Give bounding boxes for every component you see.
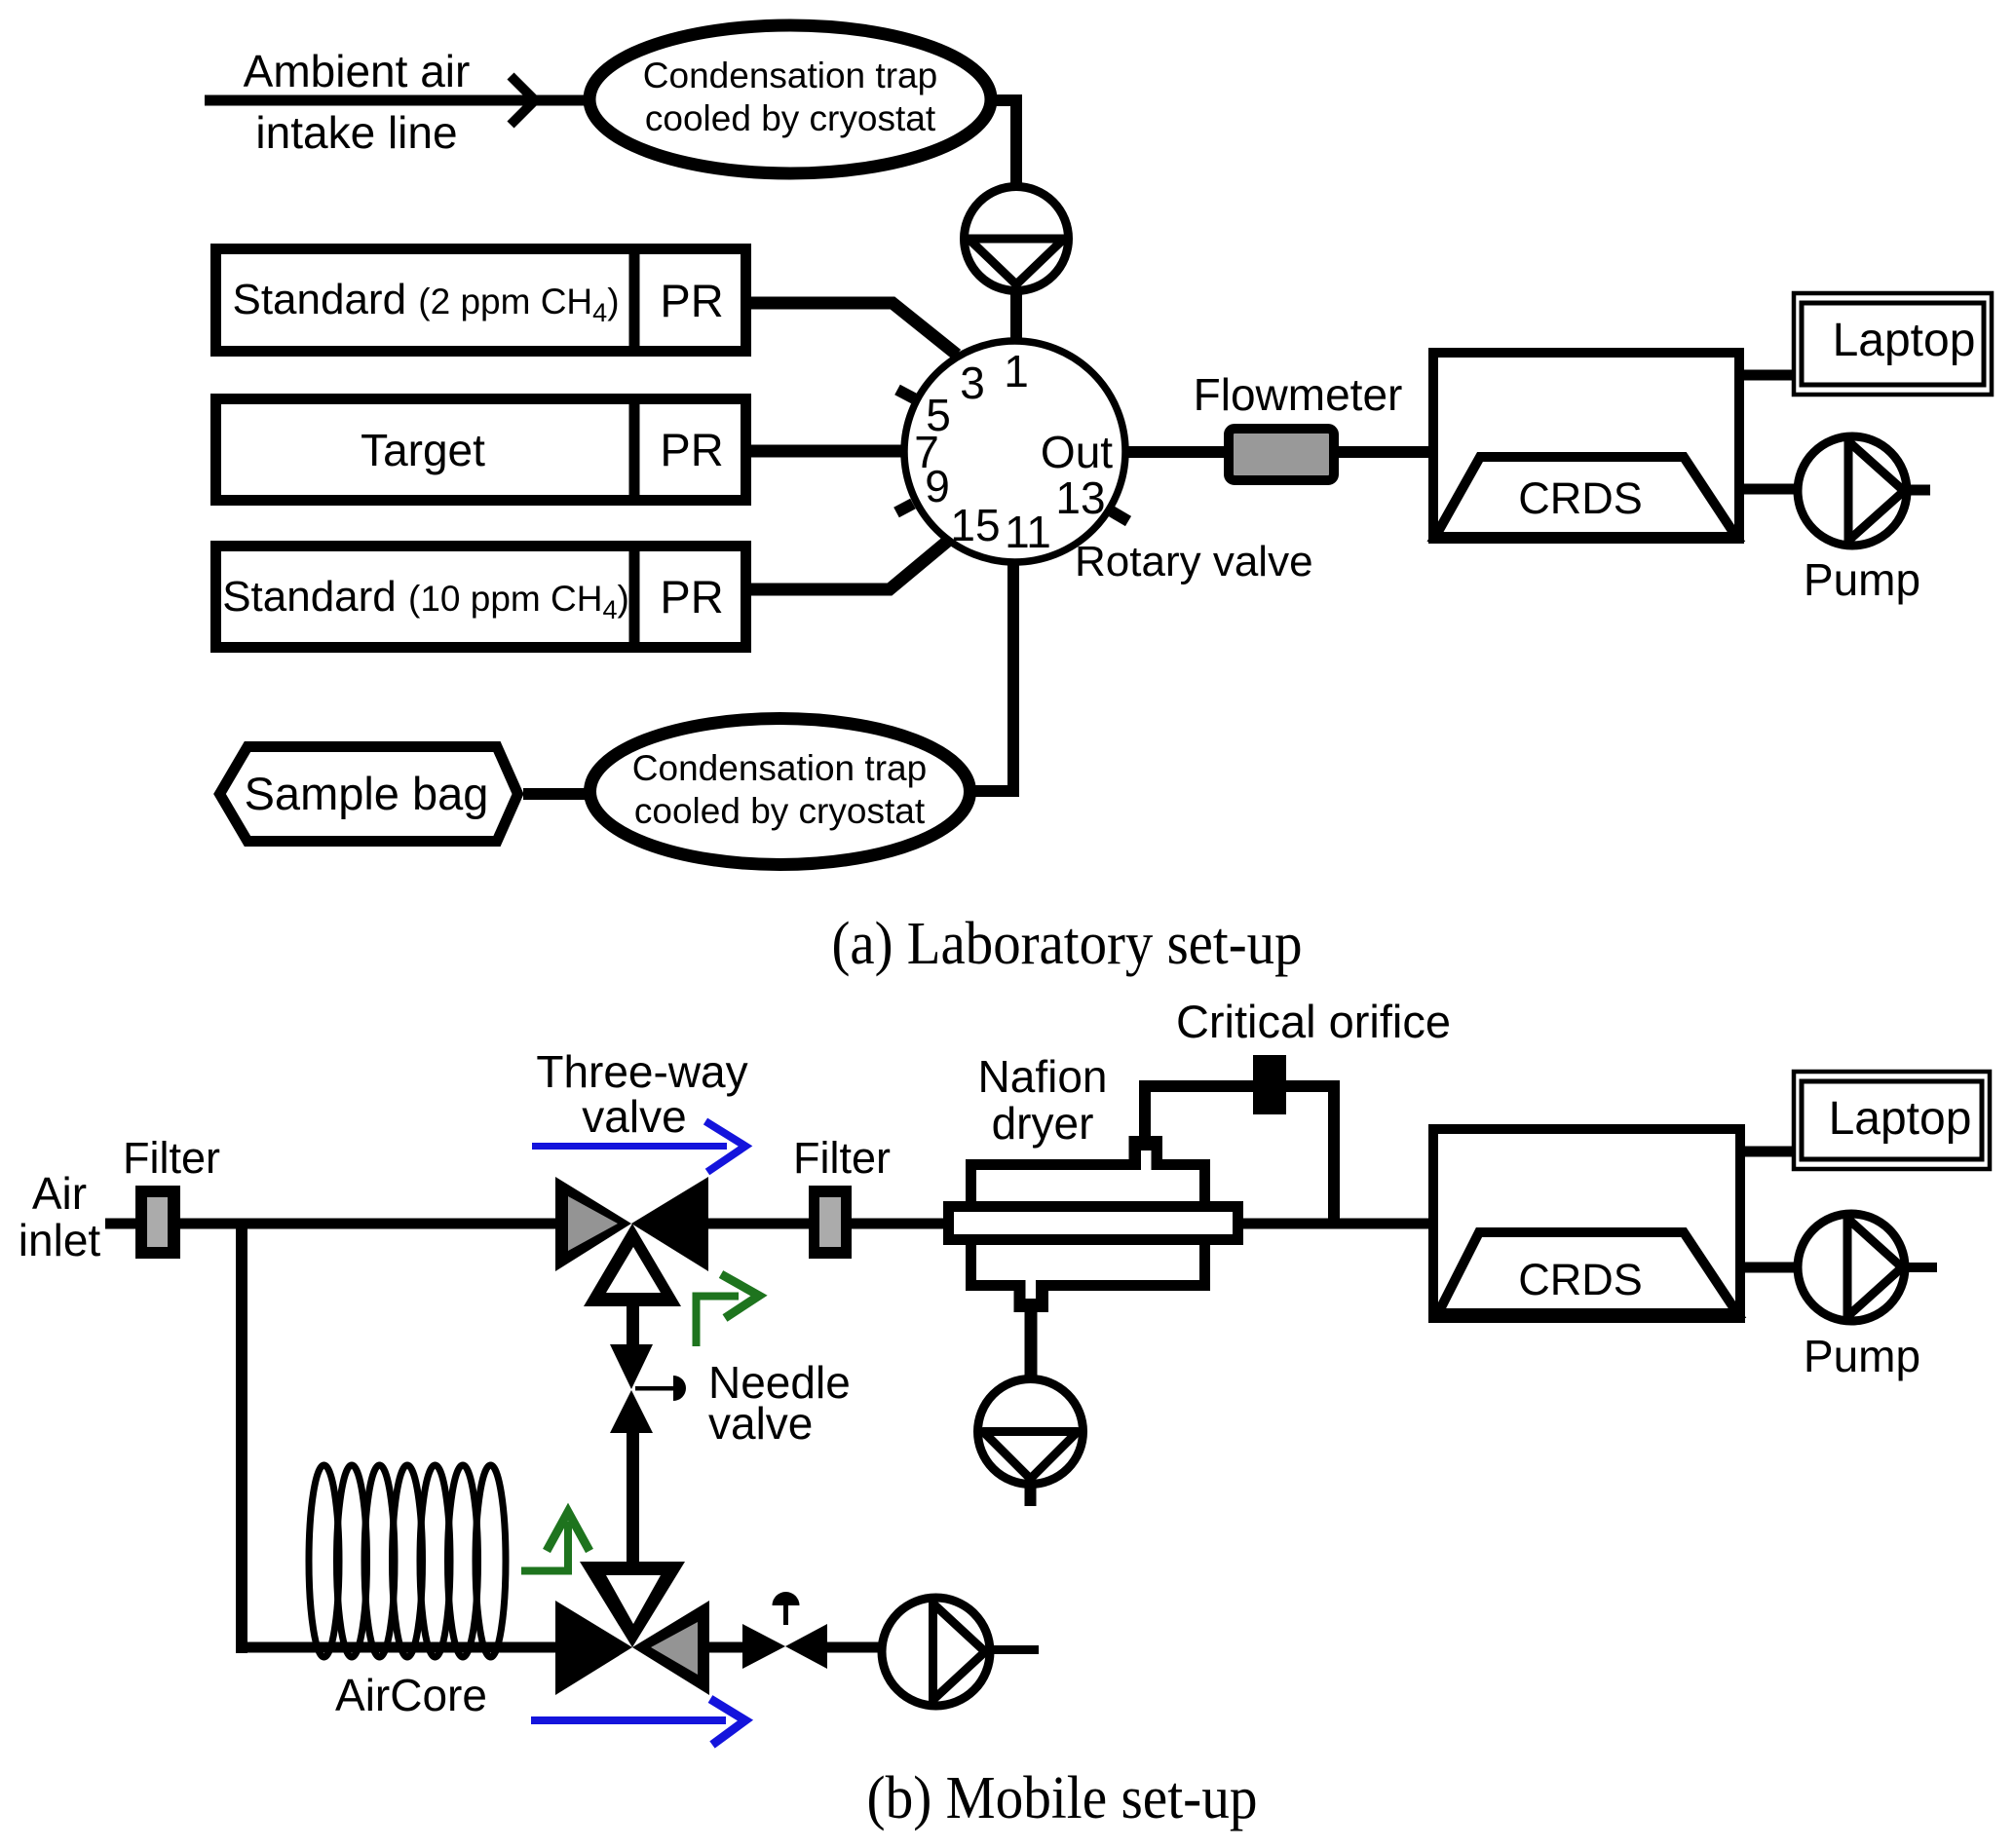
svg-text:Condensation trap: Condensation trap	[643, 56, 937, 95]
svg-text:valve: valve	[582, 1091, 686, 1142]
svg-text:valve: valve	[708, 1398, 813, 1449]
CRDS trapezoid (b)	[1438, 1232, 1737, 1313]
top port collar	[1129, 1136, 1163, 1170]
top port line up	[1139, 1080, 1151, 1138]
gray inset triangle	[651, 1622, 698, 1675]
main line dryer to CRDS	[1243, 1219, 1428, 1229]
right black triangle	[632, 1601, 709, 1695]
wire bottom valve to small valve	[709, 1642, 742, 1653]
right black triangle	[631, 1177, 708, 1271]
svg-text:1: 1	[1004, 346, 1029, 396]
svg-text:PR: PR	[660, 275, 723, 326]
pump (a)	[1798, 436, 1907, 546]
svg-text:(a) Laboratory set-up: (a) Laboratory set-up	[832, 911, 1303, 977]
Nafion dryer shell	[971, 1165, 1205, 1286]
svg-text:Out: Out	[1041, 427, 1113, 477]
svg-text:CRDS: CRDS	[1518, 473, 1643, 523]
bottom horizontal line to AirCore valve	[236, 1642, 557, 1653]
svg-text:PR: PR	[660, 571, 723, 622]
laptop (b) inner	[1802, 1081, 1982, 1159]
rotary valve circle	[904, 341, 1125, 562]
svg-text:cooled by cryostat: cooled by cryostat	[634, 791, 926, 831]
flowmeter	[1229, 429, 1334, 480]
svg-text:13: 13	[1055, 472, 1105, 523]
tick 328deg	[1112, 511, 1128, 521]
blue arrow (bottom)	[531, 1716, 726, 1724]
svg-text:11: 11	[1005, 507, 1051, 557]
svg-text:(b) Mobile set-up: (b) Mobile set-up	[867, 1765, 1258, 1831]
wire ambient air intake line	[205, 95, 585, 106]
pump (Nafion dryer)	[978, 1379, 1083, 1485]
svg-text:Nafion: Nafion	[978, 1051, 1108, 1102]
green arrow 2 (right angle, pointing up)	[521, 1522, 568, 1571]
critical orifice block	[1253, 1055, 1286, 1114]
svg-text:AirCore: AirCore	[335, 1670, 487, 1720]
svg-text:dryer: dryer	[992, 1098, 1094, 1149]
needle valve flag	[635, 1386, 673, 1391]
svg-text:Ambient air: Ambient air	[244, 46, 471, 96]
svg-text:Laptop: Laptop	[1829, 1093, 1972, 1145]
main line valve to filter2 to dryer	[708, 1219, 809, 1229]
svg-text:Laptop: Laptop	[1833, 315, 1976, 366]
laptop (a) outer	[1794, 293, 1992, 395]
gray inset triangle	[568, 1196, 618, 1251]
filter 1	[135, 1186, 180, 1259]
pump (b)	[1798, 1214, 1905, 1321]
pump P1 (vertical)	[965, 187, 1069, 291]
pump (AirCore branch)	[882, 1598, 990, 1706]
stem needle valve to bottom valve	[627, 1433, 639, 1562]
svg-text:Pump: Pump	[1804, 1331, 1920, 1381]
cylinder Target box	[216, 399, 746, 501]
wire PR3 to valve	[751, 541, 948, 589]
tick 152deg	[897, 390, 914, 398]
wire CRDS to laptop (b)	[1745, 1147, 1792, 1157]
white branch triangle below	[584, 1224, 681, 1306]
divider PR1	[629, 244, 640, 357]
divider PR2	[629, 394, 640, 506]
branch vertical line down to AirCore loop	[236, 1224, 247, 1653]
svg-text:15: 15	[950, 500, 1000, 550]
laptop (b) outer	[1794, 1072, 1990, 1169]
wire CRDS to pump (a)	[1744, 484, 1798, 495]
svg-text:Pump: Pump	[1804, 554, 1920, 605]
svg-text:Condensation trap: Condensation trap	[632, 748, 927, 788]
white branch triangle above	[580, 1562, 685, 1647]
pump right stub	[992, 1645, 1039, 1654]
wire valve Out to flowmeter	[1125, 446, 1225, 458]
svg-text:9: 9	[925, 461, 950, 511]
tick 207deg	[896, 504, 913, 512]
wire pump1 to rotary valve port 1	[1010, 289, 1022, 343]
cylinder Standard 2ppm box	[216, 249, 746, 352]
Nafion dryer tube	[949, 1207, 1238, 1240]
small hand valve	[742, 1624, 785, 1669]
svg-text:Filter: Filter	[793, 1133, 891, 1183]
divider PR3	[629, 541, 640, 653]
wire trap2 right to riser	[968, 785, 1013, 797]
stem valve to needle valve	[627, 1303, 639, 1346]
blue arrow (top)	[532, 1143, 727, 1150]
wire trap2 up to valve port 11	[1007, 563, 1019, 797]
critical orifice overline	[1139, 1080, 1340, 1092]
wire PR2 to valve	[751, 445, 906, 458]
pump bottom stub	[1025, 1485, 1037, 1506]
main line b (left of valve)	[105, 1219, 556, 1229]
CRDS trapezoid (a)	[1435, 457, 1736, 537]
left black triangle	[555, 1601, 632, 1695]
wire flowmeter to CRDS	[1338, 446, 1428, 458]
left black triangle	[555, 1177, 631, 1271]
svg-text:Target: Target	[361, 425, 485, 475]
arrowhead on intake line	[511, 76, 535, 125]
svg-text:Standard (2 ppm CH4): Standard (2 ppm CH4)	[232, 276, 619, 327]
bottom port collar	[1014, 1291, 1049, 1312]
condensation trap 2 (ellipse)	[590, 719, 970, 865]
svg-text:Critical orifice: Critical orifice	[1176, 996, 1451, 1047]
needle valve	[610, 1344, 653, 1389]
sample bag hexagon	[220, 747, 518, 842]
bottom port line down	[1025, 1312, 1038, 1377]
svg-text:Flowmeter: Flowmeter	[1194, 369, 1403, 420]
CRDS box (b)	[1433, 1129, 1740, 1318]
svg-text:Sample bag: Sample bag	[245, 768, 489, 819]
wire PR1 to valve	[751, 303, 957, 355]
critical orifice down line	[1328, 1080, 1340, 1225]
svg-text:Air: Air	[32, 1168, 87, 1219]
wire small valve to pump	[827, 1642, 880, 1653]
condensation trap 1 (ellipse)	[589, 25, 991, 173]
laptop (a) inner	[1802, 303, 1984, 385]
wire trap1 to pump1	[988, 100, 1016, 186]
svg-text:Filter: Filter	[123, 1133, 220, 1183]
CRDS box (a)	[1433, 353, 1739, 539]
svg-text:PR: PR	[660, 424, 723, 475]
svg-text:Rotary valve: Rotary valve	[1075, 538, 1313, 585]
wire hexagon to trap2	[523, 788, 589, 800]
cylinder Standard 10ppm box	[216, 547, 746, 648]
svg-text:intake line: intake line	[255, 107, 457, 158]
wire CRDS to laptop (a)	[1744, 370, 1792, 381]
svg-text:CRDS: CRDS	[1518, 1255, 1643, 1304]
green arrow 1 (right angle, pointing right)	[697, 1297, 740, 1347]
svg-text:3: 3	[960, 358, 985, 408]
AirCore coil	[309, 1465, 506, 1657]
svg-text:cooled by cryostat: cooled by cryostat	[645, 98, 936, 138]
filter 2	[809, 1186, 852, 1259]
svg-text:Standard (10 ppm CH4): Standard (10 ppm CH4)	[222, 573, 629, 624]
svg-text:Three-way: Three-way	[536, 1046, 747, 1097]
pump (b) right stub	[1905, 1263, 1937, 1272]
pump (a) right stub	[1907, 485, 1930, 496]
svg-text:inlet: inlet	[19, 1215, 101, 1265]
wire CRDS to pump (b)	[1745, 1263, 1798, 1273]
